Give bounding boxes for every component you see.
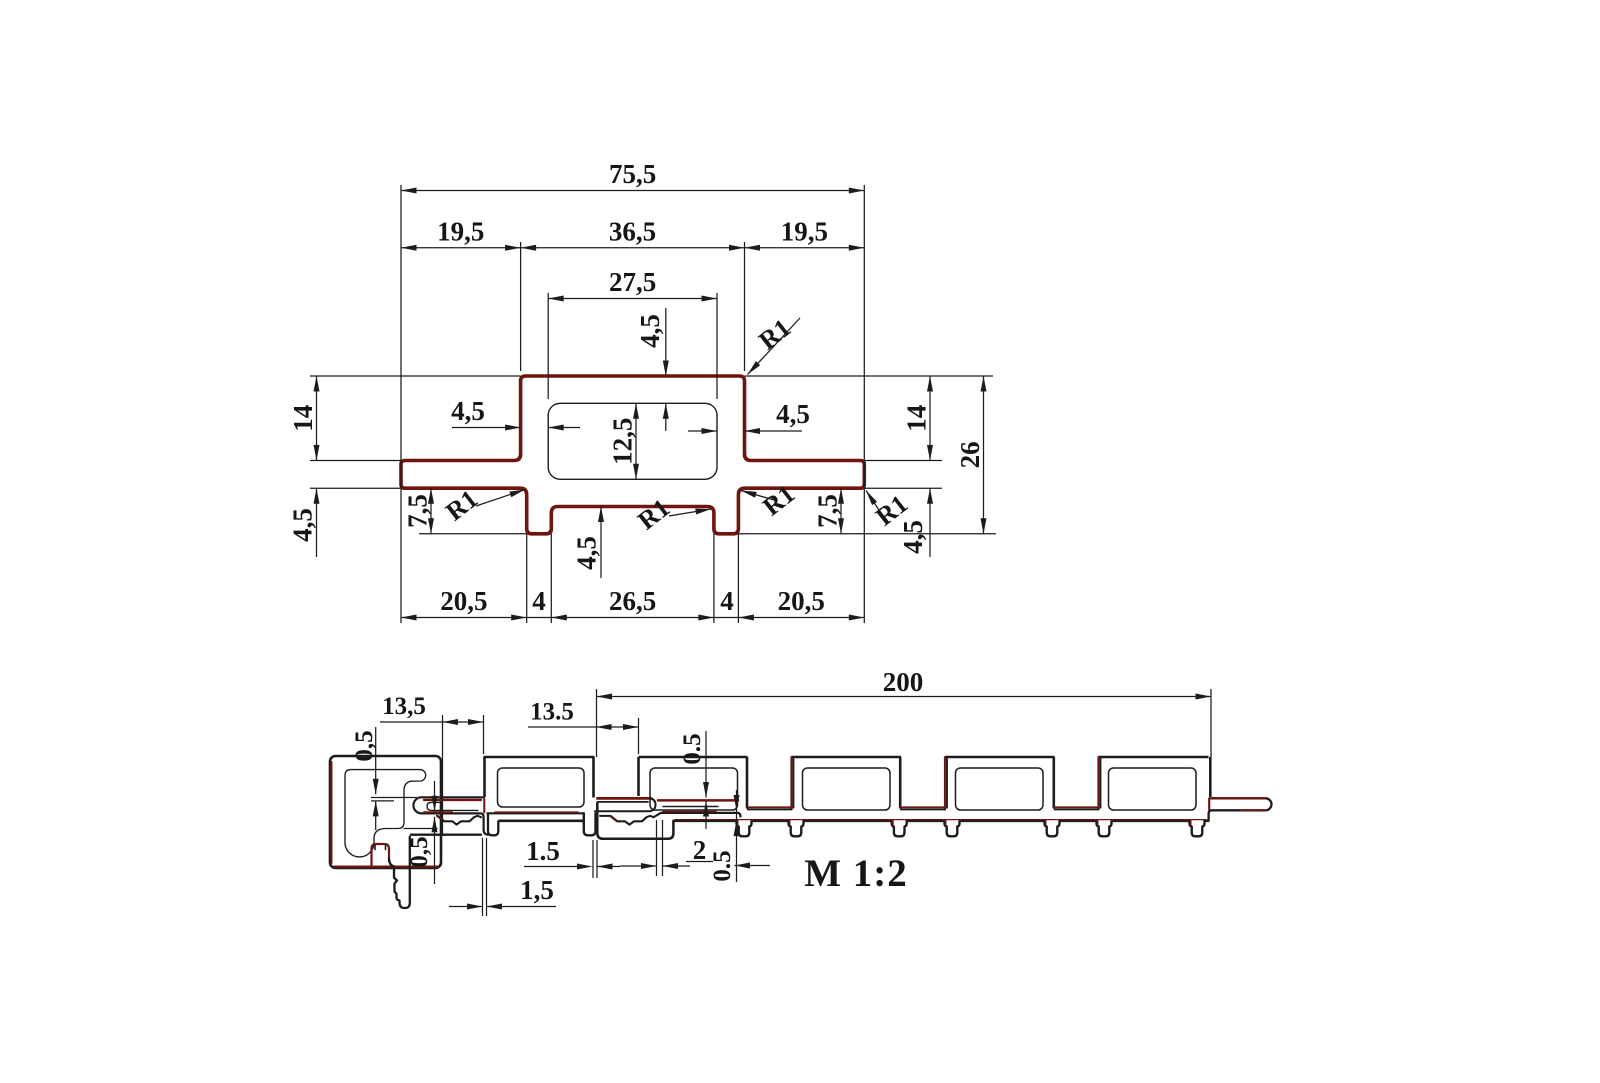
front panel hole 1 bbox=[498, 768, 585, 807]
joint2 red overlap line bbox=[658, 799, 738, 802]
module right wall bbox=[746, 757, 749, 809]
front panel right wall (groove2 left) bbox=[592, 757, 595, 798]
ext line arm bottom left bbox=[310, 487, 401, 489]
svg-text:4: 4 bbox=[532, 586, 546, 616]
ext line box left bbox=[520, 242, 522, 371]
dim 36,5 box width bbox=[521, 247, 745, 249]
svg-text:4: 4 bbox=[720, 586, 734, 616]
dim 4,5 bottom web offset bbox=[600, 507, 602, 579]
wall red left side bbox=[944, 757, 946, 809]
joint2 capsule bottom + right cap bbox=[595, 798, 656, 811]
pocket gap line bbox=[371, 797, 417, 799]
tick ext bbox=[482, 838, 484, 916]
joint2 foot block bbox=[597, 803, 673, 839]
joint2 teeth red tint bbox=[611, 816, 617, 821]
pocket lip thin line bbox=[404, 828, 437, 830]
dim 4,5 right box wall (outside arrows) bbox=[688, 430, 717, 432]
joint1 capsule outline + lip bbox=[413, 797, 488, 834]
bottom edge red accent bbox=[675, 819, 1206, 821]
dim 4,5 right arm thickness bbox=[929, 488, 931, 557]
svg-text:13,5: 13,5 bbox=[382, 693, 426, 720]
svg-text:20,5: 20,5 bbox=[778, 586, 825, 616]
bottom edge of front piece bbox=[498, 819, 584, 822]
tick ext bbox=[486, 838, 488, 916]
tick ext bbox=[662, 820, 664, 876]
dim 14 left bbox=[316, 376, 318, 461]
svg-text:13.5: 13.5 bbox=[530, 699, 574, 726]
joint2 thin inner line bbox=[598, 801, 649, 803]
svg-text:19,5: 19,5 bbox=[437, 216, 484, 246]
svg-text:200: 200 bbox=[883, 667, 924, 697]
ext line bottom right bbox=[738, 533, 996, 535]
ext line hole right bbox=[716, 293, 718, 399]
dim 12,5 hole height bbox=[635, 403, 637, 479]
dim 200 bbox=[597, 696, 1212, 698]
ext line left overall bbox=[400, 185, 402, 623]
dim 0.5 #2 (joint2, vertical through hole) bbox=[705, 731, 707, 798]
profile outline (clip cross-section, dark red) bbox=[401, 376, 864, 534]
right end: wall and tongue bbox=[1209, 757, 1212, 797]
block foot neck (red) bbox=[372, 844, 390, 866]
front wall lower red bbox=[483, 798, 485, 813]
teeth red tint bbox=[438, 816, 444, 821]
dim 75,5 overall width bbox=[401, 190, 864, 192]
inner cavity hole (rounded rect) bbox=[548, 403, 717, 479]
main panel top edge segments bbox=[639, 756, 748, 759]
right tongue red bottom part bbox=[1240, 809, 1266, 811]
front panel left wall bbox=[483, 757, 486, 797]
svg-text:R1: R1 bbox=[757, 479, 800, 521]
wall red left side bbox=[1097, 757, 1099, 809]
svg-text:4,5: 4,5 bbox=[635, 314, 665, 348]
svg-text:4,5: 4,5 bbox=[572, 536, 602, 570]
block foot lower outline bbox=[389, 837, 410, 909]
dim 19,5 right bbox=[745, 247, 865, 249]
module right wall bbox=[1053, 757, 1056, 809]
svg-text:7,5: 7,5 bbox=[403, 494, 433, 528]
svg-text:75,5: 75,5 bbox=[609, 159, 656, 189]
dim 26 overall height bbox=[983, 376, 985, 534]
dim 7,5 right bbox=[840, 488, 842, 534]
joint2 teeth bbox=[610, 813, 661, 824]
front panel piece top edge bbox=[484, 756, 595, 759]
shallow foot U at joint1 left of cell1 bbox=[488, 814, 498, 835]
svg-text:27,5: 27,5 bbox=[609, 267, 656, 297]
ext leg2 left bbox=[713, 534, 715, 623]
joint1 inner thin hook bbox=[427, 802, 478, 810]
dim 4,5 left arm thickness bbox=[316, 488, 318, 557]
svg-text:26: 26 bbox=[955, 441, 985, 468]
tick ext bbox=[592, 840, 594, 878]
svg-text:26,5: 26,5 bbox=[609, 586, 656, 616]
dim 27,5 hole width bbox=[548, 298, 717, 300]
joint2 groove bottom plate (capsule, red top + black bottom) bbox=[598, 797, 652, 800]
ext line right overall bbox=[863, 185, 865, 623]
svg-text:4,5: 4,5 bbox=[288, 508, 318, 542]
svg-text:0,5: 0,5 bbox=[351, 730, 378, 761]
svg-text:12,5: 12,5 bbox=[608, 418, 638, 465]
ext line box right bbox=[744, 242, 746, 371]
cell1 inner bottom plate line bbox=[488, 812, 585, 814]
block left edge red accent bbox=[331, 762, 333, 863]
ext 200 right bbox=[1210, 689, 1212, 757]
right tongue red top bbox=[1212, 797, 1266, 799]
foot/step at right end of cell1 bbox=[584, 814, 596, 836]
ext bbox=[638, 718, 640, 754]
wall black bbox=[1099, 757, 1101, 809]
right tongue bbox=[1209, 798, 1272, 821]
ext line arm bottom right bbox=[864, 487, 942, 489]
R1 leader right leg corner bbox=[741, 491, 774, 501]
joint2 thin line bbox=[663, 806, 718, 808]
svg-text:R1: R1 bbox=[753, 313, 796, 355]
dim 4,5 left box wall (outside arrows) bbox=[452, 427, 521, 429]
dim 0,5 #3 (left bottom) bbox=[434, 781, 436, 811]
svg-text:4,5: 4,5 bbox=[776, 399, 810, 429]
ext line hole left bbox=[547, 293, 549, 399]
dim 4,5 hole top offset (vertical, outside arrows) bbox=[665, 308, 667, 376]
dim 13.5 (joint2 groove) bbox=[528, 726, 596, 728]
tick ext bbox=[596, 840, 598, 878]
R1 leader left leg corner bbox=[476, 490, 525, 507]
R1 leader box top-right corner bbox=[748, 318, 801, 375]
svg-text:7,5: 7,5 bbox=[813, 494, 843, 528]
svg-text:R1: R1 bbox=[632, 493, 675, 535]
dim 14 right bbox=[929, 376, 931, 461]
groove bottoms bbox=[747, 806, 793, 808]
wall black bbox=[946, 757, 948, 809]
main bottom edge with feet bbox=[673, 819, 736, 822]
joint1 clip teeth (break marks) bbox=[437, 816, 481, 825]
tongue1 red stripe bbox=[424, 799, 481, 801]
joint2 red overlap lower bbox=[663, 811, 716, 813]
svg-text:20,5: 20,5 bbox=[440, 586, 487, 616]
tick ext bbox=[656, 820, 658, 876]
svg-text:36,5: 36,5 bbox=[609, 216, 656, 246]
ext line bottom left bbox=[419, 533, 527, 535]
starter clip block (left) bbox=[330, 756, 441, 868]
foot neck inner ticks bbox=[375, 845, 386, 850]
module right wall bbox=[899, 757, 902, 809]
svg-text:4,5: 4,5 bbox=[451, 396, 485, 426]
dim 0,5 #1 (hook gap) bbox=[375, 727, 377, 794]
wall red left side bbox=[790, 757, 792, 809]
dim 2 tick crosses on line A bbox=[699, 812, 714, 814]
ext leg2 right bbox=[737, 534, 739, 623]
svg-text:M 1:2: M 1:2 bbox=[804, 852, 908, 895]
R1 leader web right corner bbox=[669, 509, 711, 516]
svg-text:14: 14 bbox=[902, 405, 932, 432]
dim 20,5 bottom right bbox=[738, 617, 864, 619]
dim 26,5 bottom center bbox=[551, 617, 714, 619]
module holes bbox=[650, 768, 738, 810]
joint2 plate line bbox=[661, 813, 741, 817]
dim 0.5 #4 (plate, right) bbox=[736, 790, 738, 882]
svg-text:0,5: 0,5 bbox=[406, 836, 433, 867]
dim 7,5 left bbox=[430, 488, 432, 534]
ext leg1 left bbox=[526, 534, 528, 623]
ext bbox=[483, 715, 485, 754]
svg-text:14: 14 bbox=[288, 405, 318, 432]
ext line arm top left bbox=[310, 460, 401, 462]
svg-text:1.5: 1.5 bbox=[526, 836, 560, 866]
svg-text:4,5: 4,5 bbox=[898, 520, 928, 554]
ext line y=top right bbox=[745, 375, 994, 377]
svg-text:1,5: 1,5 bbox=[520, 875, 554, 905]
hook cavity inside block (thin) bbox=[345, 770, 426, 857]
ext (long, through block wall area) bbox=[442, 715, 444, 836]
dim 19,5 left bbox=[401, 247, 521, 249]
svg-text:2: 2 bbox=[693, 835, 707, 865]
wall black bbox=[792, 757, 794, 809]
svg-text:0.5: 0.5 bbox=[709, 850, 736, 881]
block bottom edge red accent bbox=[334, 865, 438, 867]
line y=836 under joint1 bbox=[411, 834, 481, 836]
ext line arm top right bbox=[864, 460, 942, 462]
wall module1 left bbox=[637, 757, 640, 796]
svg-text:R1: R1 bbox=[440, 484, 483, 526]
ext leg1 right bbox=[550, 534, 552, 623]
svg-text:19,5: 19,5 bbox=[781, 216, 828, 246]
svg-text:0.5: 0.5 bbox=[679, 733, 706, 764]
dim 20,5 bottom left bbox=[401, 617, 527, 619]
ext line y=top left bbox=[310, 375, 521, 377]
dim 13,5 (joint1 groove) bbox=[380, 721, 443, 723]
ext 200 left bbox=[596, 689, 598, 757]
joint1 red overlap lower bbox=[424, 811, 452, 813]
R1 leader right arm end corner bbox=[866, 491, 885, 520]
